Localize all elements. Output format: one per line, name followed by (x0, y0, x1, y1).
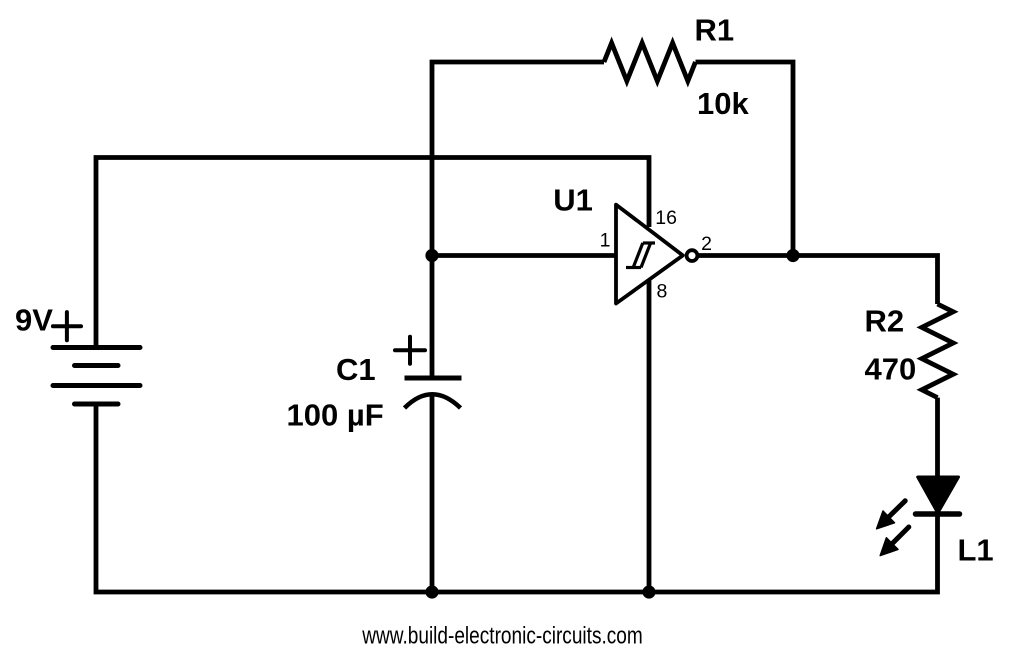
wire pin 1 input (432, 253, 616, 258)
node dot feedback/C1/pin1 (425, 249, 438, 262)
svg-text:9V: 9V (15, 302, 53, 337)
resistor R2 (922, 304, 953, 398)
wire pin 8 lead (647, 279, 652, 592)
LED arrow 2 (880, 527, 909, 556)
resistor R1 (604, 43, 695, 81)
node dot R1/output (786, 249, 799, 262)
LED L1 cathode bar (916, 511, 960, 517)
svg-text:U1: U1 (553, 183, 593, 218)
svg-text:470: 470 (865, 352, 917, 387)
wire R2 to LED (935, 398, 940, 477)
LED L1 triangle (918, 477, 959, 513)
svg-text:C1: C1 (336, 352, 376, 387)
svg-text:16: 16 (655, 207, 677, 229)
capacitor C1 plus sign (395, 337, 425, 364)
wire feedback vertical (C1 top to R1 left) (432, 62, 604, 378)
wire ground rail battery to LED (96, 404, 938, 592)
capacitor C1 curved plate (405, 394, 461, 408)
svg-text:R1: R1 (695, 12, 735, 47)
svg-text:2: 2 (701, 233, 712, 255)
wire output pin 2 to R2 (698, 256, 938, 305)
node dot C1/ground rail (425, 585, 438, 598)
LED arrow 1 (877, 501, 906, 529)
svg-text:100 µF: 100 µF (287, 397, 384, 432)
svg-text:1: 1 (600, 230, 611, 252)
node dot pin8/ground rail (642, 585, 655, 598)
battery plus sign (53, 312, 81, 340)
capacitor C1 top plate (405, 376, 462, 381)
svg-text:L1: L1 (958, 532, 994, 567)
svg-text:10k: 10k (697, 86, 749, 121)
inverter U1 triangle (616, 205, 683, 304)
svg-text:8: 8 (657, 280, 668, 302)
wire capacitor bottom lead (430, 394, 435, 593)
svg-text:R2: R2 (865, 304, 905, 339)
wire battery positive rail to pin 16 (96, 158, 649, 348)
U1 hysteresis symbol (626, 243, 655, 268)
battery B1 (53, 348, 140, 405)
wire R1 right drop to output node (696, 62, 794, 256)
svg-text:www.build-electronic-circuits.: www.build-electronic-circuits.com (361, 622, 642, 649)
U1 output inversion bubble (687, 250, 698, 261)
